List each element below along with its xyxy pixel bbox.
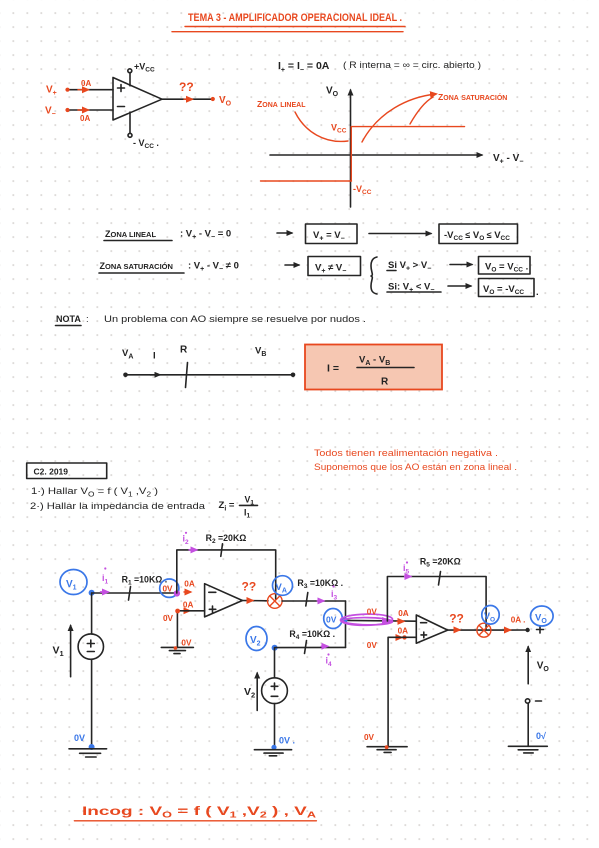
svg-text:Suponemos que los AO están en: Suponemos que los AO están en zona linea… (314, 462, 517, 473)
wire op1 output (242, 600, 268, 602)
svg-text:V+ ≠ V−: V+ ≠ V− (315, 263, 346, 276)
ground output (508, 746, 547, 753)
svg-text:NOTA: NOTA (56, 314, 81, 324)
item 2 hallar Zi (30, 495, 258, 520)
0A current at output (505, 616, 525, 631)
wire V- input (68, 109, 114, 111)
equation row zona saturacion (99, 257, 539, 299)
op-amp triangle (113, 78, 162, 121)
node dot output (211, 97, 215, 101)
+Vcc supply pin (129, 73, 131, 86)
svg-text:0A: 0A (398, 609, 409, 618)
label Vo with arrow (output voltage) (528, 647, 549, 684)
svg-text:: V+ - V− ≠ 0: : V+ - V− ≠ 0 (188, 261, 239, 274)
resistor R5 tick (439, 572, 441, 586)
resistor R2 tick (221, 544, 223, 557)
svg-text:0A: 0A (184, 580, 195, 589)
op-amp + input sign (118, 85, 125, 92)
node dot V1 bottom (89, 744, 95, 750)
svg-text:I+ = I− = 0A: I+ = I− = 0A (278, 60, 330, 74)
pointer curve zona saturacion long (362, 94, 436, 142)
x-axis V+ - V- (270, 154, 482, 156)
wire op1 non-inverting to ground (177, 611, 204, 648)
svg-text:: V+ - V− = 0: : V+ - V− = 0 (180, 229, 231, 242)
wire VA to VB (126, 374, 294, 376)
svg-text:0A: 0A (183, 600, 194, 609)
saturation high segment (351, 126, 464, 128)
node VA circled blue (273, 576, 293, 596)
wire V+ input (68, 89, 114, 91)
svg-text:0V: 0V (163, 585, 174, 594)
current i1 arrow (101, 591, 108, 593)
node dot V- (65, 108, 69, 112)
svg-text:0V: 0V (181, 639, 192, 648)
ground op1 plus (161, 646, 193, 653)
resistor R tick (186, 363, 188, 388)
pointer curve zona lineal (295, 112, 348, 141)
current i4 arrow (321, 645, 327, 647)
0A current into op1 inverting (184, 580, 195, 593)
ground op2 plus (367, 745, 407, 752)
svg-text:0V: 0V (364, 733, 375, 742)
node VB (291, 373, 296, 378)
svg-text:I =: I = (327, 363, 339, 375)
svg-text:Zi =: Zi = (219, 500, 235, 513)
svg-text:Incog : VO = f ( V1 ,V2 ): Incog : VO = f ( V1 ,V2 ) , VA (82, 804, 316, 820)
node dot V2 (272, 645, 278, 651)
svg-text:( R interna = ∞ = circ. abiert: ( R interna = ∞ = circ. abierto ) (343, 60, 481, 71)
exercise header box C2 2019 (27, 463, 107, 479)
svg-text::: : (86, 314, 89, 325)
svg-text:ZONA SATURACIÓN: ZONA SATURACIÓN (100, 261, 173, 271)
wire R4 (275, 646, 346, 648)
wire op2 output (448, 629, 526, 631)
equation row zona lineal (104, 224, 518, 244)
label V2 with arrow (244, 673, 257, 710)
0A current into op1 non-inverting (183, 600, 194, 611)
box -Vcc <= Vo <= Vcc (439, 224, 518, 244)
node VA crossed out (268, 594, 283, 609)
svg-text:2·) Hallar la impedancia: 2·) Hallar la impedancia de entrada (30, 501, 206, 512)
label V1 with arrow (53, 626, 71, 677)
arrow op1 output (248, 600, 253, 602)
node VO circled blue (terminal) (531, 606, 554, 626)
svg-text:ZONA LINEAL: ZONA LINEAL (105, 229, 156, 239)
svg-text:??: ?? (242, 580, 257, 594)
resistor R4 tick (305, 641, 307, 654)
node dot V2 bottom (271, 745, 276, 750)
svg-text:R: R (381, 377, 389, 388)
node dot V1 (89, 590, 95, 596)
box V+ != V- (308, 257, 361, 276)
wire op2 non-inverting to ground (388, 637, 416, 747)
current arrow 0A on V- wire (78, 109, 88, 111)
svg-text:0V: 0V (326, 615, 337, 625)
svg-text:C2. 2019: C2. 2019 (34, 467, 69, 477)
svg-text:Un problema con AO siempre s: Un problema con AO siempre se resuelve p… (104, 314, 366, 325)
node VO crossed out (477, 623, 491, 637)
svg-text:R: R (180, 345, 188, 356)
wire junction to op2 inverting (346, 619, 417, 622)
wire output Vo (162, 98, 213, 100)
arrow op2 output (455, 629, 460, 631)
0A current into op2 inverting (397, 609, 409, 621)
arrow (285, 264, 299, 266)
feedback loop R2 (177, 550, 276, 599)
equation I+ = I- = 0A (R interna = inf = circ. abierto) (278, 60, 481, 74)
node VA (123, 373, 128, 378)
bottom incognitas line (74, 804, 316, 821)
ground V2 (254, 750, 291, 756)
svg-text:0A: 0A (80, 114, 90, 123)
nota example circuit (122, 345, 295, 388)
svg-text:??: ?? (449, 612, 464, 626)
svg-text:0V: 0V (74, 733, 85, 743)
svg-text:0A: 0A (398, 626, 409, 635)
resistor R3 tick (306, 593, 308, 607)
node VO circled blue (op2 output) (482, 606, 499, 625)
ground V1 (69, 749, 107, 757)
output terminal plus (525, 626, 543, 633)
box V+ = V- (306, 224, 358, 244)
svg-text:TEMA 3 - AMPLIFICADOR OPERACI: TEMA 3 - AMPLIFICADOR OPERACIONAL IDEAL … (188, 12, 402, 24)
node 0V circled (op1 inverting) (160, 579, 179, 597)
source V1 (78, 593, 103, 748)
arrow (277, 232, 292, 234)
y-axis Vo (350, 90, 352, 207)
svg-text:0V: 0V (367, 608, 378, 617)
transfer-characteristic graph (257, 86, 523, 208)
node dot magenta inverting (174, 590, 180, 596)
long arrow (369, 233, 431, 235)
output arrow red (184, 98, 192, 100)
svg-text:.: . (536, 287, 539, 298)
svg-text:0A: 0A (81, 79, 91, 88)
feedback loop R5 (387, 577, 486, 629)
saturation low segment (261, 180, 352, 182)
current i2 arrow (189, 549, 196, 551)
source V2 (262, 648, 288, 748)
output terminal minus (525, 699, 541, 703)
wire R3-R4 junction vertical (345, 601, 347, 647)
current i3 arrow (317, 600, 323, 602)
box Vo = -Vcc (479, 279, 535, 297)
node dot red op1 plus (175, 609, 180, 614)
current i5 arrow (405, 576, 411, 578)
node dot op2 inverting (342, 618, 348, 624)
svg-text:0V: 0V (163, 614, 174, 623)
resistor R1 tick (129, 587, 131, 601)
svg-text:0A .: 0A . (511, 616, 526, 625)
title TEMA 3 AMPLIFICADOR OPERACIONAL IDEAL (172, 12, 405, 32)
-Vcc supply pin (129, 112, 131, 134)
svg-text:1·) Hallar VO = f ( V1 ,V2: 1·) Hallar VO = f ( V1 ,V2 ) (31, 486, 158, 499)
node V1 circled (60, 570, 87, 595)
transition vertical segment (350, 127, 352, 181)
NOTA heading (56, 314, 367, 326)
op-amp U-ideal symbol (45, 62, 232, 151)
svg-text:V+ - V−: V+ - V− (493, 153, 523, 166)
box Vo = Vcc (479, 257, 531, 275)
wire R1 input (92, 592, 178, 594)
op-amp U2 (416, 615, 447, 643)
current arrow 0A on V+ wire (78, 89, 88, 91)
0A current into op2 non-inverting (396, 626, 409, 639)
node 0V circled (op2 inverting) (324, 609, 343, 629)
svg-text:Todos tienen realimentación ne: Todos tienen realimentación negativa . (314, 448, 498, 459)
highlighted formula box I=(VA-VB)/R (305, 345, 442, 390)
svg-text:I: I (153, 351, 156, 362)
current I arrow (150, 374, 160, 376)
svg-text:0V: 0V (367, 641, 378, 650)
wire R3 (282, 600, 345, 602)
node V2 circled (246, 627, 267, 651)
magenta emphasis loop on virtual short (340, 614, 392, 626)
node dot V+ (65, 88, 69, 92)
svg-text:V+ = V−: V+ = V− (313, 230, 345, 243)
svg-text:0V .: 0V . (279, 736, 295, 746)
brace (371, 257, 377, 294)
wire terminal minus to ground (527, 703, 529, 746)
svg-text:??: ?? (179, 80, 194, 94)
svg-text:0√: 0√ (536, 731, 546, 741)
op-amp U1 (205, 584, 243, 617)
pointer curve zona saturacion short (410, 97, 433, 124)
op-amp - input sign (118, 106, 125, 108)
